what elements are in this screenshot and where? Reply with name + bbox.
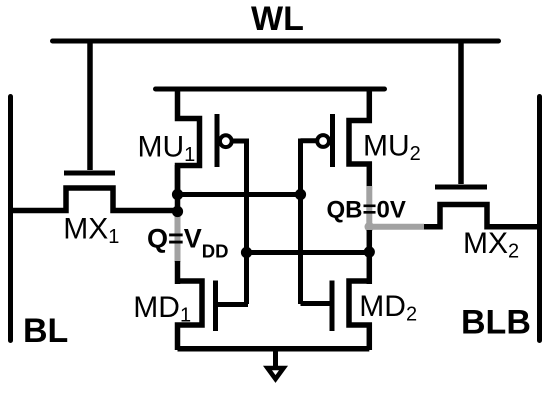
svg-text:WL: WL	[251, 0, 304, 38]
node QB highlighted segment vertical (gray)	[366, 186, 372, 227]
node QB gray junction blob	[365, 222, 375, 232]
svg-text:QB=0V: QB=0V	[327, 197, 406, 224]
node Q highlighted segment (gray)	[175, 216, 181, 262]
transistor MX1 (NMOS access)	[11, 173, 178, 211]
svg-text:BLB: BLB	[461, 304, 531, 342]
transistor MD2 (NMOS pull-down)	[301, 281, 370, 351]
ground stem	[273, 349, 278, 367]
wire BL bit line	[8, 97, 13, 341]
wire Q vertical lower (to MD1 drain)	[175, 261, 181, 284]
junction dot Q lower (MX1 tap)	[172, 206, 183, 217]
junction dot QB vertical	[364, 246, 375, 257]
wire Q vertical upper (MU1 drain to MX1)	[175, 165, 181, 218]
wire cross-couple left vertical (QB net to gates of MU1/MD1)	[244, 139, 249, 305]
transistor MU2 (PMOS pull-up)	[301, 87, 370, 191]
wire MX2 gate stem	[458, 39, 464, 185]
junction dot QB rail to left vertical	[241, 247, 252, 258]
ground symbol	[268, 368, 284, 379]
junction dot Q upper	[172, 189, 183, 200]
transistor MX2 (NMOS access)	[424, 187, 540, 227]
wire QB vertical (to MD2 drain)	[367, 230, 373, 284]
wire VDD rail	[156, 87, 385, 92]
wire QB to MU1/MD1 gates horizontal	[247, 250, 370, 255]
transistor MU1 (PMOS pull-up)	[178, 87, 249, 198]
wire MX1 gate stem	[87, 39, 93, 171]
wire VSS rail	[178, 346, 370, 352]
node QB highlighted segment horizontal (gray)	[369, 224, 424, 230]
wire BLB bit line bar	[537, 97, 542, 341]
svg-text:BL: BL	[23, 312, 68, 350]
wire cross-couple right vertical (Q net to gates of MU2/MD2)	[298, 139, 303, 305]
junction dot Q rail to right vertical	[295, 189, 306, 200]
wire Q to MU2/MD2 gates horizontal	[178, 192, 301, 197]
transistor MD1 (NMOS pull-down)	[178, 281, 249, 351]
wire WL word line	[53, 39, 499, 44]
